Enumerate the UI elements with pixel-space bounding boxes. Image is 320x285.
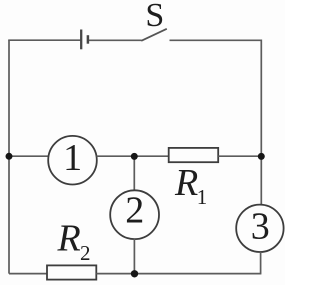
resistor R1 — [169, 148, 219, 162]
label S — [145, 0, 164, 34]
label R2 — [57, 218, 91, 265]
node: junction on left branch — [6, 153, 13, 160]
wire: center vertical from meter 2 to bottom rail — [133, 239, 135, 274]
meter 1 — [48, 136, 97, 185]
wire: top rail between battery and switch — [89, 39, 142, 41]
wire: top rail right segment — [170, 39, 263, 41]
svg-text:3: 3 — [251, 206, 270, 248]
svg-text:1: 1 — [197, 185, 208, 209]
svg-text:S: S — [145, 0, 164, 34]
node: junction middle rail / center branch — [131, 153, 138, 160]
wire: right vertical branch upper — [260, 40, 262, 206]
wire: middle rail from left branch to meter 1 — [9, 155, 49, 157]
meter 2 — [110, 189, 159, 239]
svg-text:2: 2 — [125, 189, 144, 231]
svg-text:R: R — [57, 218, 81, 260]
wire: left vertical branch — [8, 40, 10, 273]
meter 3 — [236, 205, 283, 252]
wire: center vertical from middle rail to meter 2 — [133, 156, 135, 190]
resistor R2 — [47, 265, 96, 279]
wire: bottom rail left segment — [9, 273, 47, 275]
battery cell — [81, 30, 88, 50]
wire: bottom rail right segment — [96, 273, 261, 275]
svg-text:R: R — [174, 162, 198, 204]
wire: middle rail from meter 1 to resistor R1 — [97, 155, 169, 157]
wire: top rail left segment — [8, 39, 81, 41]
wire: right vertical below meter 3 — [260, 252, 262, 274]
label R1 — [174, 162, 207, 209]
wire: middle rail from resistor R1 to right branch — [218, 155, 261, 157]
switch S lever — [141, 29, 167, 41]
svg-text:1: 1 — [63, 137, 82, 179]
node: junction bottom rail / center branch — [131, 270, 138, 277]
node: junction middle rail / right branch — [258, 153, 265, 160]
svg-text:2: 2 — [80, 241, 91, 265]
